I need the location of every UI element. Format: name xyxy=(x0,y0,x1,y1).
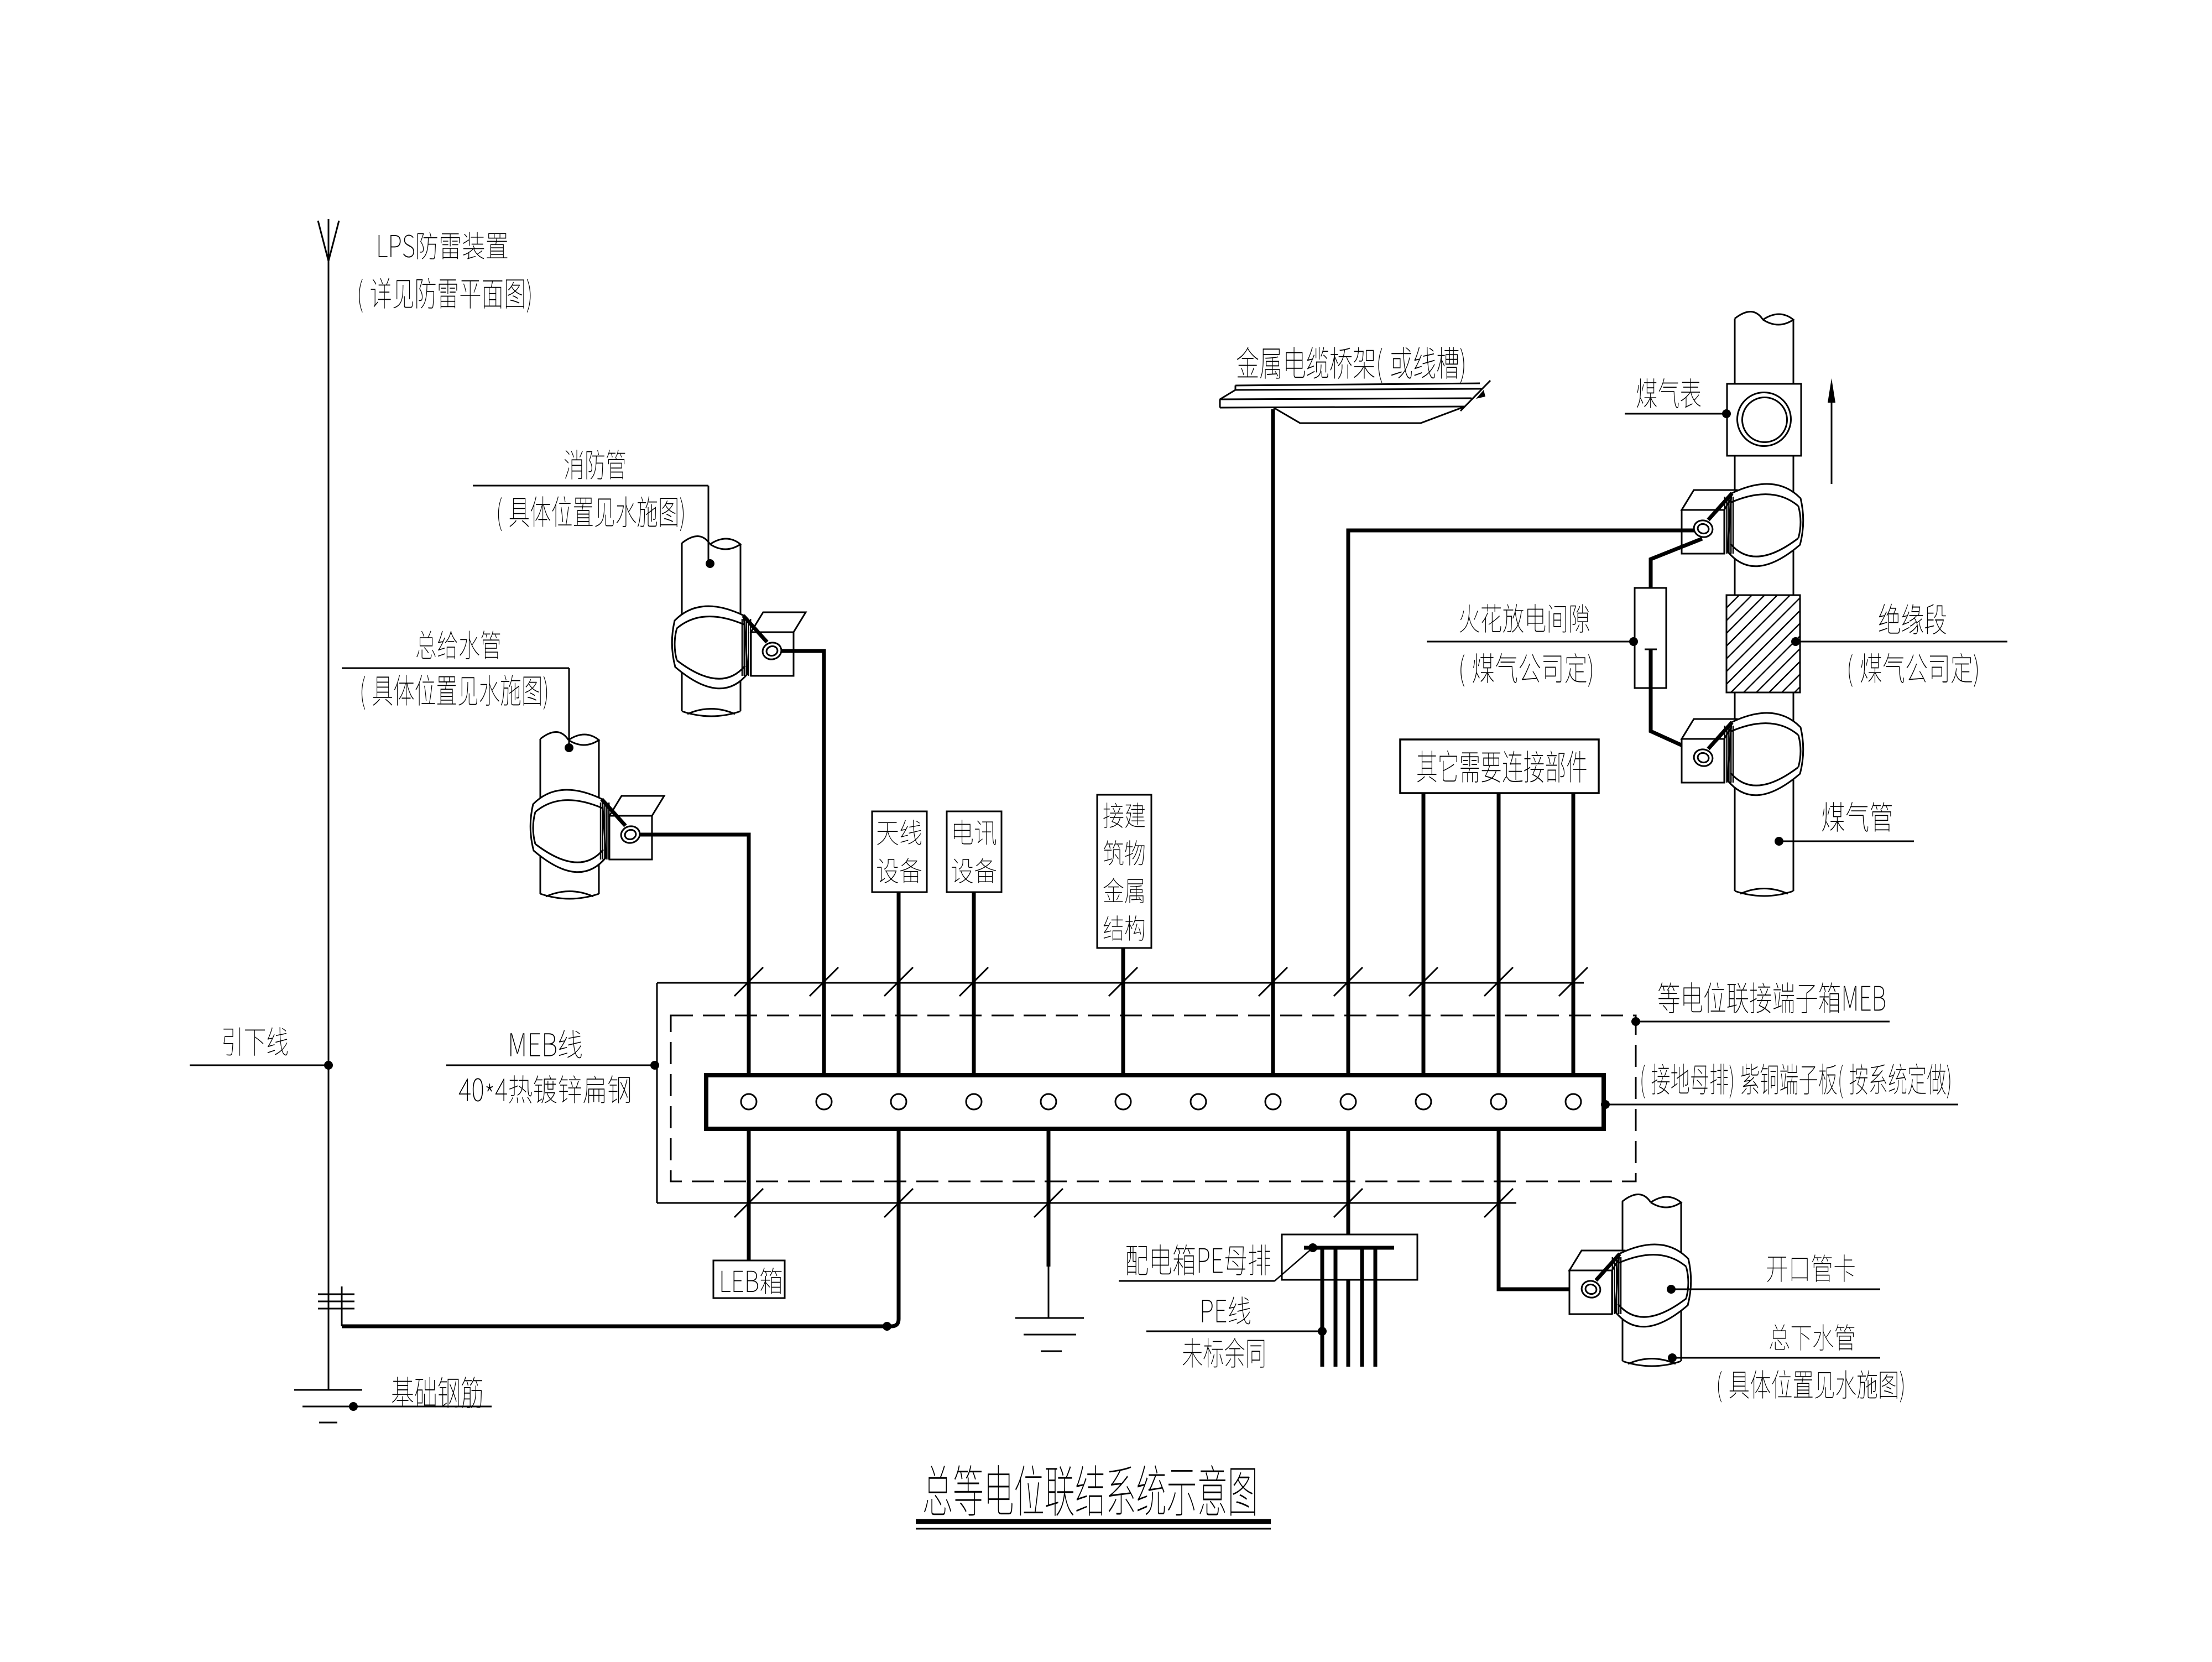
label (具体位置见水施图) drain xyxy=(1718,1370,1903,1402)
wire 天线设备 to bar xyxy=(897,892,901,1075)
terminal circle 2 xyxy=(816,1094,832,1109)
label (具体位置见水施图) water xyxy=(362,675,547,710)
label 消防管 xyxy=(565,450,625,480)
label 等电位联接端子箱MEB xyxy=(1658,982,1885,1013)
hash mark bottom at x=2710 xyxy=(1484,1189,1513,1217)
spark gap upper electrode xyxy=(1651,539,1702,622)
wire other-3 to bar xyxy=(1572,793,1575,1075)
riser of MEB flat steel xyxy=(341,1286,343,1326)
terminal circle 5 xyxy=(1041,1094,1056,1109)
gas pipe body xyxy=(1734,319,1736,891)
hash mark bottom at x=1354 xyxy=(734,1189,763,1217)
leader 煤气管 xyxy=(1780,841,1914,842)
label 金属电缆桥架(或线槽) xyxy=(1237,347,1464,383)
PE wire 5 xyxy=(1374,1248,1378,1367)
label 煤气管 xyxy=(1822,802,1892,832)
MEB enclosure dashed box xyxy=(671,1015,1636,1181)
hash mark top at x=2302 xyxy=(1259,967,1287,996)
wire bar to earth stub xyxy=(1047,1129,1051,1267)
wire bar to LEB box xyxy=(747,1129,751,1260)
hash mark top at x=2031 xyxy=(1109,967,1138,996)
hash mark bottom at x=1625 xyxy=(884,1189,913,1217)
wire other-2 to bar xyxy=(1497,793,1501,1075)
node dot 煤气表 xyxy=(1722,409,1731,418)
label 结构 xyxy=(1104,915,1144,941)
hash mark bottom at x=1896 xyxy=(1034,1189,1063,1217)
spark gap body xyxy=(1635,588,1666,688)
hash mark bottom at x=2438 xyxy=(1334,1189,1363,1217)
wire 电讯设备 to bar xyxy=(972,892,976,1075)
label MEB线 xyxy=(510,1030,582,1058)
node dot on water pipe xyxy=(565,743,573,752)
label 总下水管 xyxy=(1770,1324,1854,1351)
box 天线设备 xyxy=(872,811,927,892)
wire water clamp to bar xyxy=(640,835,749,1075)
terminal circle 9 xyxy=(1340,1094,1356,1109)
hash mark top at x=2574 xyxy=(1409,967,1438,996)
node dot 开口管卡 xyxy=(1667,1285,1676,1294)
leader 火花放电间隙 xyxy=(1427,641,1632,643)
label (具体位置见水施图) fire xyxy=(498,496,684,531)
junction dot MEB线 xyxy=(650,1061,659,1070)
spark gap lower electrode xyxy=(1645,649,1657,650)
terminal circle 6 xyxy=(1115,1094,1131,1109)
clamp on water pipe xyxy=(609,796,664,816)
label 设备 a xyxy=(877,858,921,883)
terminal circle 12 xyxy=(1566,1094,1581,1109)
leader 绝缘段 xyxy=(1797,641,2007,643)
label 总给水管 xyxy=(416,631,500,659)
node dot spark gap xyxy=(1629,637,1638,646)
hash mark top at x=2438 xyxy=(1334,967,1363,996)
junction dot 基础钢筋 xyxy=(349,1402,358,1411)
underline 配电箱PE母排 xyxy=(1119,1280,1275,1282)
junction dot PE busbar xyxy=(1308,1243,1317,1252)
wire cable tray to bar xyxy=(1271,409,1275,1075)
leader diagonal 配电箱PE母排 xyxy=(1275,1248,1313,1281)
PE wire 2 xyxy=(1334,1248,1338,1367)
PE busbar xyxy=(1304,1246,1394,1250)
box 其它需要连接部件 xyxy=(1400,739,1599,793)
wire fire clamp to bar xyxy=(781,651,824,1075)
label (接地母排)紫铜端子板(按系统定做) xyxy=(1641,1064,1950,1098)
label (详见防雷平面图) xyxy=(359,278,530,312)
node dot 总下水管 xyxy=(1668,1353,1677,1362)
terminal circle 11 xyxy=(1491,1094,1506,1109)
fire pipe body xyxy=(681,543,683,711)
label 设备 b xyxy=(952,858,996,883)
label (煤气公司定) insul xyxy=(1849,653,1978,687)
wire 接建筑物金属结构 to bar xyxy=(1121,948,1125,1075)
leader 煤气表 xyxy=(1625,413,1725,415)
LEB box xyxy=(713,1260,785,1298)
wire bar to drain clamp xyxy=(1499,1129,1582,1289)
leader 开口管卡 xyxy=(1672,1289,1880,1290)
node dot on fire pipe xyxy=(706,559,714,568)
title 总等电位联结系统示意图 xyxy=(924,1465,1255,1516)
leader 引下线 xyxy=(190,1065,327,1066)
water pipe body xyxy=(540,739,541,894)
junction dot 引下线 xyxy=(324,1061,333,1070)
terminal circle 7 xyxy=(1191,1094,1206,1109)
node dot 绝缘段 xyxy=(1791,637,1800,646)
label 其它需要连接部件 xyxy=(1417,751,1587,783)
PE wire 1 xyxy=(1321,1248,1324,1367)
label 金属 xyxy=(1104,878,1144,903)
leader MEB线 xyxy=(446,1065,654,1066)
label LPS防雷装置 xyxy=(379,232,508,259)
terminal circle 8 xyxy=(1265,1094,1281,1109)
hash mark top at x=1761 xyxy=(959,967,988,996)
MEB flat steel conductor (40*4) xyxy=(342,1130,899,1326)
clamp on gas pipe upper xyxy=(1682,490,1736,510)
LPS air terminal antenna symbol xyxy=(328,219,330,1065)
clamp on fire pipe xyxy=(751,612,806,632)
distribution box PE busbar enclosure xyxy=(1282,1234,1417,1280)
clamp on gas pipe lower xyxy=(1682,719,1736,739)
terminal circle 3 xyxy=(891,1094,906,1109)
insulating section (hatched) xyxy=(1726,595,1800,692)
wire other-1 to bar xyxy=(1422,793,1426,1075)
gas meter box xyxy=(1727,384,1801,456)
terminal circle 10 xyxy=(1416,1094,1431,1109)
label 配电箱PE母排 xyxy=(1126,1244,1270,1275)
label 40*4热镀锌扁钢 xyxy=(459,1075,630,1103)
leader 紫铜端子板 xyxy=(1605,1104,1958,1106)
terminal circle 1 xyxy=(741,1094,757,1109)
leader PE线 xyxy=(1146,1331,1321,1332)
hash mark top at x=2845 xyxy=(1559,967,1588,996)
leader 消防管 xyxy=(473,485,708,487)
hash mark top at x=2710 xyxy=(1484,967,1513,996)
label 火花放电间隙 xyxy=(1460,604,1589,633)
junction dot PE线 xyxy=(1318,1327,1327,1336)
label 绝缘段 xyxy=(1879,604,1946,634)
label PE线 xyxy=(1202,1296,1250,1324)
wire bar to PE busbar xyxy=(1347,1129,1350,1367)
junction dot MEB box label xyxy=(1631,1017,1640,1026)
connection ticks on down conductor xyxy=(318,1294,354,1295)
junction dot 紫铜端子板 xyxy=(1601,1100,1610,1109)
thin lead to earth symbol xyxy=(1048,1267,1050,1318)
box 电讯设备 xyxy=(947,811,1001,892)
drain pipe body xyxy=(1622,1201,1624,1361)
clamp on drain pipe xyxy=(1569,1251,1624,1270)
node dot 煤气管 xyxy=(1775,837,1783,846)
cable tray symbol xyxy=(1235,383,1480,385)
terminal circle 4 xyxy=(966,1094,982,1109)
title underline thick xyxy=(916,1519,1271,1524)
junction dot on MEB flat steel xyxy=(883,1322,891,1331)
label 接建 xyxy=(1103,803,1145,828)
MEB enclosure wall line xyxy=(657,982,1584,984)
down conductor lower section xyxy=(328,1065,330,1390)
label 天线 xyxy=(877,820,921,845)
label LEB箱 xyxy=(722,1268,782,1294)
label 引下线 xyxy=(223,1027,288,1055)
copper terminal bar xyxy=(706,1075,1604,1129)
flow direction arrow xyxy=(1831,387,1833,484)
label 煤气表 xyxy=(1637,378,1700,408)
hash mark top at x=1625 xyxy=(884,967,913,996)
wire gas clamp to bar xyxy=(1348,530,1694,1075)
label 未标余同 xyxy=(1183,1338,1264,1368)
label 筑物 xyxy=(1104,840,1145,866)
label 电讯 xyxy=(954,820,996,845)
leader 总给水管 xyxy=(342,668,569,669)
leader 等电位联接端子箱MEB xyxy=(1636,1021,1890,1023)
title underline thin xyxy=(916,1528,1271,1530)
box 接建筑物金属结构 xyxy=(1097,795,1151,948)
hash mark top at x=1354 xyxy=(734,967,763,996)
earth symbol below bar xyxy=(1015,1317,1084,1319)
label 基础钢筋 xyxy=(392,1377,482,1408)
label 开口管卡 xyxy=(1767,1254,1854,1282)
label (煤气公司定) spark xyxy=(1460,653,1592,687)
leader 总下水管 xyxy=(1673,1357,1880,1359)
earth symbol at down conductor xyxy=(294,1389,362,1391)
hash mark top at x=1490 xyxy=(810,967,838,996)
PE wire 4 xyxy=(1360,1248,1364,1367)
